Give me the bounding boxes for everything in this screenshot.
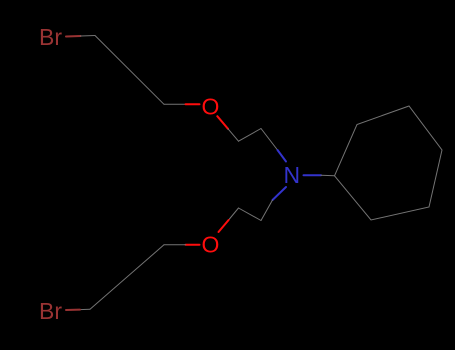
bond Br1-C1 maroon half xyxy=(66,35,81,38)
bond C10-Br2 maroon half xyxy=(66,309,80,311)
svg-text:O: O xyxy=(202,94,220,120)
bond N-C6 gray half xyxy=(261,200,273,221)
bond C4-C5 xyxy=(239,129,262,142)
ring cyclohexyl hexagon xyxy=(335,106,443,220)
bond O1-C4 gray half xyxy=(228,129,239,141)
svg-text:Br: Br xyxy=(39,298,62,324)
wire chain C8-C9-C10 bottom-left diagonal xyxy=(90,245,164,309)
bond C6-C7 xyxy=(239,208,262,221)
bond C3-O1 red half xyxy=(186,103,200,105)
bond N-C11 blue half (to ring) xyxy=(304,174,322,176)
bond O2-C8 red half xyxy=(186,244,200,246)
bond C5-N gray half xyxy=(261,129,278,151)
bond C7-O2 red half xyxy=(219,220,229,232)
bond O2-C8 gray half xyxy=(164,244,186,246)
bond C7-O2 gray half xyxy=(229,208,239,220)
bond C5-N blue half xyxy=(278,150,287,162)
bond O1-C4 red half xyxy=(217,116,228,129)
bond C10-Br2 gray half xyxy=(80,308,90,310)
bond Br1-C1 gray half xyxy=(81,35,96,38)
bond N-C11 gray half xyxy=(321,174,335,177)
svg-text:O: O xyxy=(202,232,220,258)
svg-text:Br: Br xyxy=(39,24,62,50)
svg-text:N: N xyxy=(284,162,301,188)
wire chain C1-C2-C3 top-left diagonal xyxy=(95,36,164,105)
bond C3-O1 gray half xyxy=(164,103,186,105)
bond N-C6 blue half (lower arm) xyxy=(273,187,287,200)
